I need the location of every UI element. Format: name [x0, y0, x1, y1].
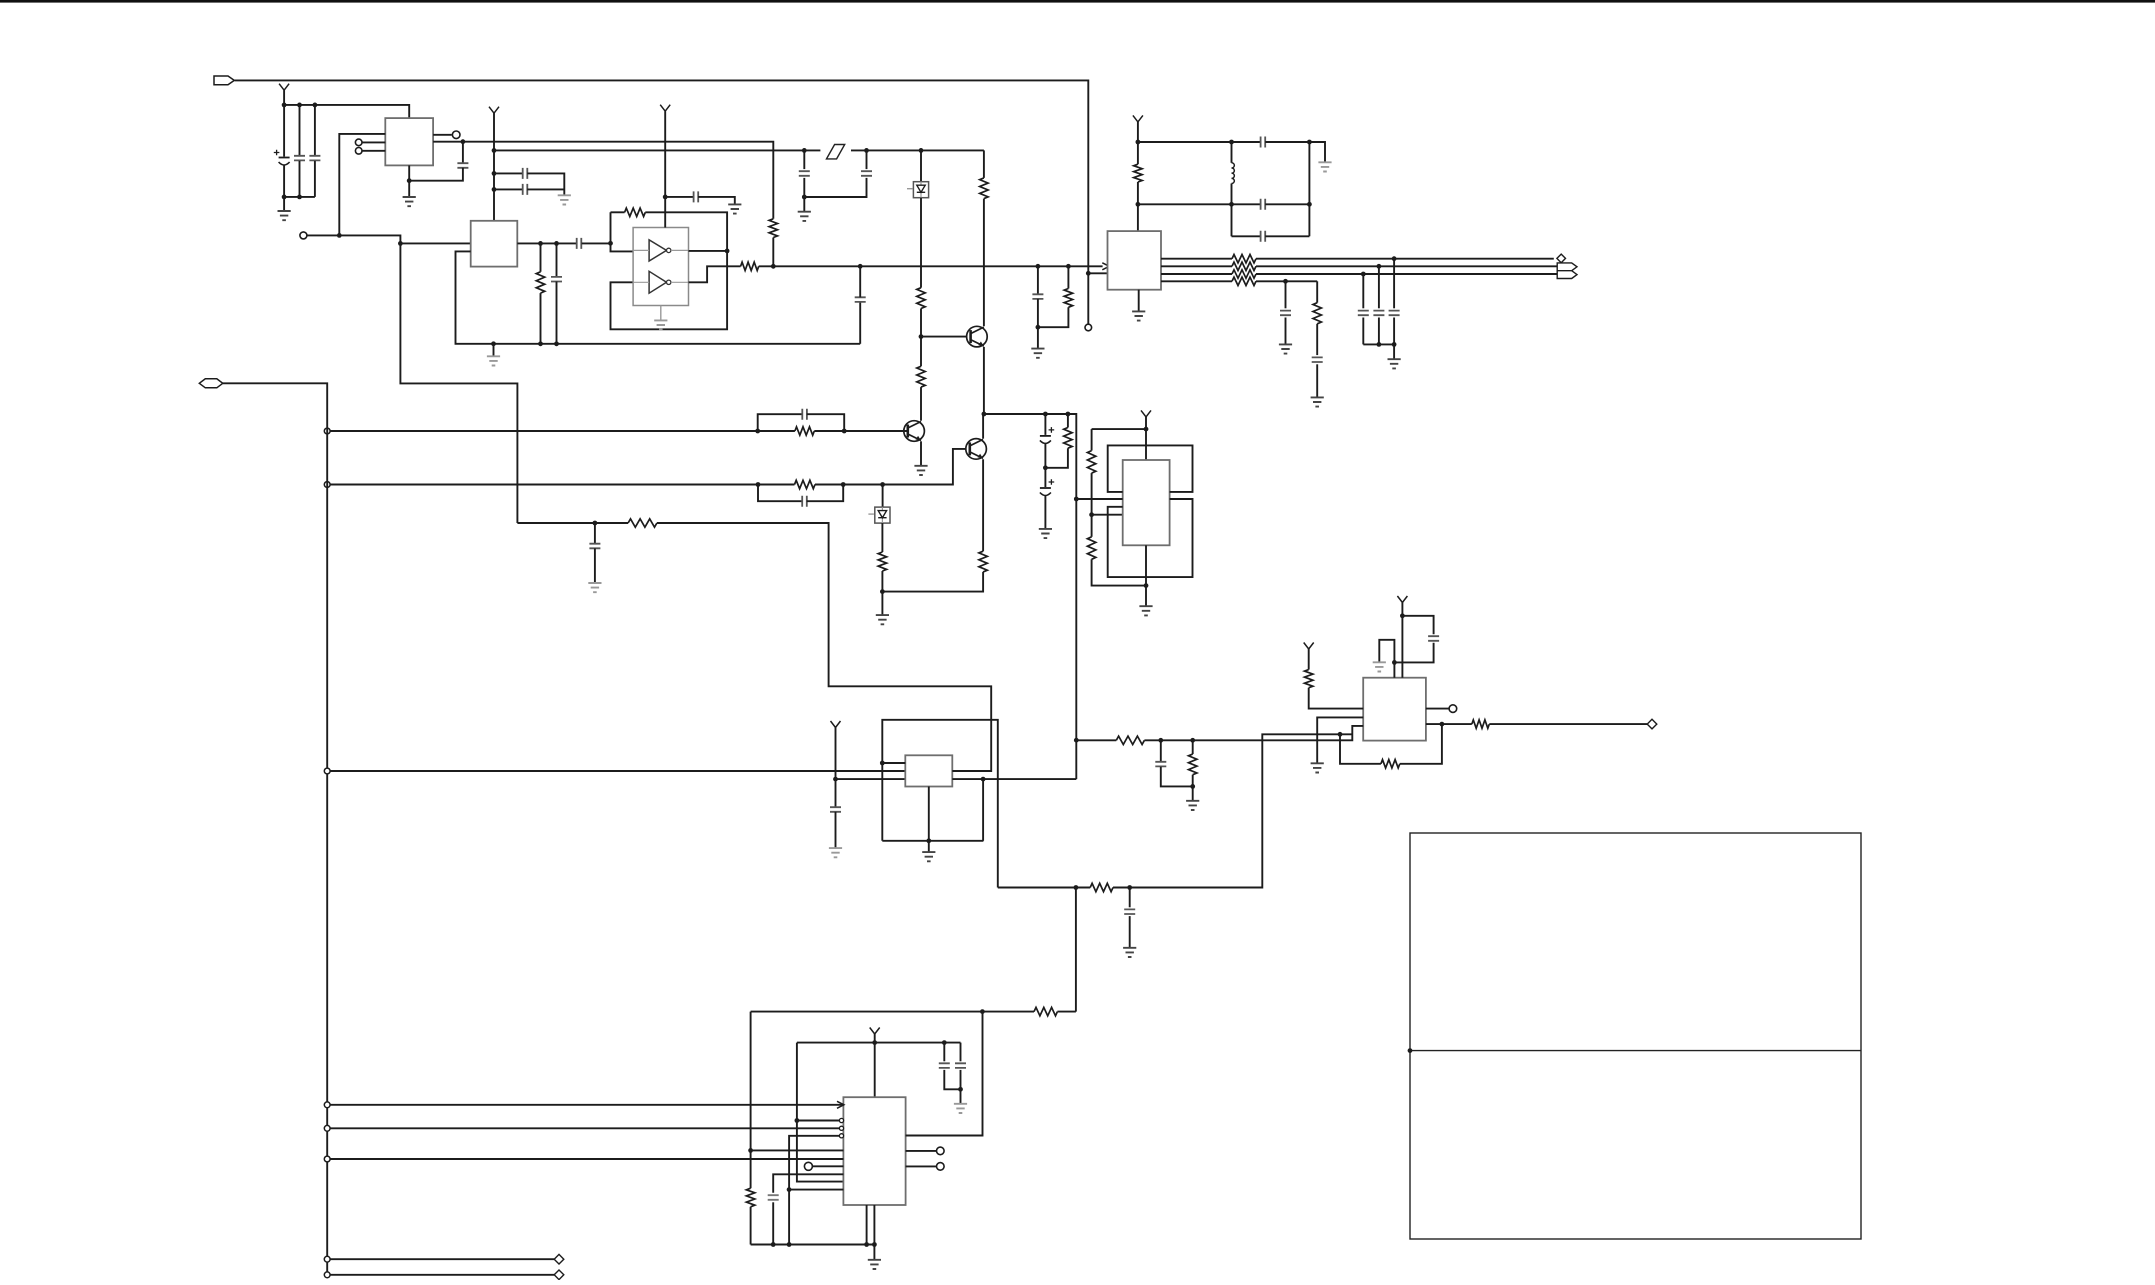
- wire R17 to C22: [1316, 324, 1318, 355]
- wire IC6 gnd pin a: [866, 1205, 868, 1245]
- capacitor C13: [861, 171, 872, 176]
- junction on box edge: [1408, 1048, 1413, 1053]
- junction: [1229, 202, 1234, 207]
- wire R13 body lead: [1067, 414, 1069, 428]
- IC IC5: [905, 755, 952, 786]
- top border bar: [0, 0, 2155, 3]
- wire Y1 stem: [283, 90, 285, 105]
- transistor Q4: [966, 439, 987, 460]
- open terminal TP5: [937, 1147, 945, 1155]
- junction: [880, 482, 885, 487]
- junction: [926, 838, 931, 843]
- wire common row: [1363, 343, 1394, 345]
- junction: [1043, 465, 1048, 470]
- ground: [403, 197, 416, 206]
- junction: [282, 195, 287, 200]
- wire Y7 stem: [874, 1034, 876, 1097]
- capacitor C22: [1312, 357, 1323, 362]
- wire C30 lower: [1161, 767, 1193, 787]
- wire tap7 run: [331, 1258, 555, 1260]
- wire under loop right: [1400, 724, 1442, 764]
- junction: [1229, 140, 1234, 145]
- wire C23 lower: [1037, 299, 1039, 327]
- inverter U1A: [649, 240, 666, 261]
- wire run right: [1113, 734, 1352, 887]
- resistor R11: [979, 551, 987, 572]
- wire bus cap riser: [859, 302, 861, 344]
- wire C27 lead: [1129, 888, 1131, 908]
- wire pinE drop: [982, 779, 984, 841]
- wire C21 lower: [1285, 318, 1287, 344]
- capacitor C6: [523, 184, 528, 195]
- IC IC6: [843, 1097, 905, 1205]
- junction: [1377, 342, 1382, 347]
- wire row1 right: [1265, 141, 1309, 143]
- wire U1A in: [633, 249, 649, 251]
- wire C24 lower: [835, 812, 837, 848]
- wire pin row: [1092, 514, 1123, 516]
- junction: [1136, 140, 1141, 145]
- junction Y3 cap: [663, 195, 668, 200]
- wire IC2 out: [433, 141, 463, 143]
- wire IC2 bottom pin: [408, 165, 410, 196]
- junction IC4 in: [1074, 497, 1079, 502]
- wire L1 upper: [1231, 142, 1233, 163]
- annotation box divider: [1410, 1050, 1861, 1052]
- diamond terminal D-B1: [554, 1254, 564, 1264]
- wire p5: [751, 1149, 844, 1151]
- diamond terminal D-OUT4: [1647, 719, 1657, 729]
- power symbol Y4: [1141, 410, 1151, 417]
- wire C26 lead: [960, 1043, 962, 1062]
- junction: [313, 103, 318, 108]
- wire R11 to node: [882, 572, 983, 592]
- wire IC6 r1: [906, 1012, 983, 1136]
- wire Q4 emitter: [982, 459, 984, 551]
- junction: [872, 1242, 877, 1247]
- IC6 pin bubble p3: [839, 1126, 843, 1130]
- wire tap2 run: [331, 484, 795, 486]
- wire row3: [1232, 235, 1261, 237]
- junction: [864, 1242, 869, 1247]
- capacitor C27: [1124, 909, 1135, 914]
- junction: [1307, 140, 1312, 145]
- wire C1 lead: [283, 105, 285, 157]
- connector tag CN2: [199, 379, 223, 388]
- capacitor C14: [802, 409, 807, 420]
- wire R16 lower: [1137, 182, 1139, 231]
- junction IC6 p2 node: [795, 1118, 800, 1123]
- wire IC3 output: [517, 242, 576, 244]
- capacitor C8: [551, 277, 562, 282]
- wire out2 run: [1489, 723, 1647, 725]
- electrolytic capacitor C1: [279, 157, 290, 159]
- wire C15 loop right: [807, 485, 844, 502]
- ground: [876, 615, 889, 624]
- resistor R24: [1472, 720, 1490, 728]
- capacitor C20: [1261, 231, 1266, 242]
- ground: [728, 204, 741, 213]
- ground: [1388, 359, 1401, 368]
- junction: [755, 429, 760, 434]
- wire IC7 out1: [1426, 708, 1449, 710]
- ground: [1139, 606, 1152, 615]
- resistor R9: [795, 427, 814, 435]
- junction: [958, 1087, 963, 1092]
- wire cap pair top right: [527, 173, 564, 194]
- resistor R12: [878, 552, 886, 571]
- ground: [829, 848, 842, 857]
- resistor R4: [625, 208, 646, 216]
- wire out2 run: [1256, 265, 1557, 267]
- wire IC3 left loop pin: [456, 251, 861, 343]
- capacitor C28: [768, 1195, 779, 1200]
- wire D1 top lead: [920, 150, 922, 181]
- wire power rail: [797, 1042, 961, 1044]
- resistor R14: [1087, 451, 1095, 474]
- wire C3 lead lower: [314, 161, 316, 197]
- wire C16 top lead: [1044, 414, 1046, 435]
- transistor Q1: [904, 421, 925, 442]
- wire Q1 emitter: [920, 441, 922, 465]
- wire C17 top lead: [1044, 468, 1046, 487]
- wire C28 lower: [772, 1202, 774, 1244]
- wire switched line a: [494, 149, 820, 151]
- wire IC6 gnd pin b: [873, 1205, 875, 1245]
- wire C22 lower: [1316, 364, 1318, 397]
- resistor R18: [1064, 289, 1072, 308]
- wire C2 lead: [299, 105, 301, 155]
- junction inverter input: [608, 241, 613, 246]
- junction: [1400, 613, 1405, 618]
- wire C25 lower: [944, 1070, 960, 1089]
- resistor R23: [1381, 760, 1400, 768]
- ground: [1132, 311, 1145, 320]
- junction: [771, 1242, 776, 1247]
- junction top-bus / IC1 pin: [1086, 271, 1091, 276]
- junction: [802, 148, 807, 153]
- junction: [1392, 342, 1397, 347]
- open tap T3: [324, 768, 330, 774]
- capacitor C25: [939, 1063, 950, 1068]
- wire R27 upper: [1192, 740, 1194, 754]
- wire row2: [1138, 203, 1261, 205]
- junction: [880, 589, 885, 594]
- wire cap lead: [1378, 266, 1380, 308]
- wire R15 upper: [1091, 515, 1093, 537]
- wire to gnd: [803, 197, 805, 211]
- wire IC5 pinC: [836, 778, 906, 780]
- wire to IC1 pin 2: [1088, 272, 1107, 274]
- wire to gnd: [928, 841, 930, 852]
- junction: [1066, 264, 1071, 269]
- ground: [1318, 162, 1331, 171]
- wire R8 upper: [920, 337, 922, 367]
- wire C30 lead: [1160, 740, 1162, 761]
- diamond terminal D-OUT1: [1557, 254, 1566, 263]
- junction: [841, 482, 846, 487]
- junction cap tap2: [492, 187, 497, 192]
- junction: [1074, 885, 1079, 890]
- resistor R26: [1034, 1007, 1057, 1015]
- junction line B: [1074, 738, 1079, 743]
- wire Q2 emitter: [983, 347, 985, 414]
- wire Y4 row: [1092, 428, 1146, 430]
- open tap T4: [324, 1102, 330, 1108]
- wire IC2 out long: [463, 142, 773, 219]
- capacitor C7: [577, 238, 582, 249]
- wire cap lower: [1362, 318, 1364, 345]
- wire R7 to Q2 collector: [983, 199, 985, 327]
- resistor R23: [1232, 270, 1256, 278]
- wire C7 to inverter loop: [582, 242, 611, 244]
- open tap T2: [324, 482, 330, 488]
- wire D2 top lead: [882, 485, 884, 508]
- wire gnd stub: [493, 344, 495, 356]
- wire C27 lower: [1129, 916, 1131, 947]
- junction: [1144, 427, 1149, 432]
- wire R8 to Q1 collector: [920, 387, 922, 421]
- resistor R20: [746, 1188, 754, 1207]
- open terminal TP7: [1449, 705, 1457, 713]
- open terminal TP6: [937, 1163, 945, 1171]
- wire tap6 run: [331, 1158, 844, 1160]
- junction Q2 emitter node: [982, 412, 987, 417]
- annotation box: [1410, 833, 1861, 1239]
- open pin circle IC2-a: [355, 139, 362, 146]
- resistor R7: [980, 178, 988, 199]
- wire osc out run: [998, 887, 1090, 889]
- wire Q2 base: [921, 336, 971, 338]
- wire C14 loop right: [807, 414, 844, 431]
- wire R22 to pin1: [1309, 688, 1364, 709]
- capacitor C15: [802, 496, 807, 507]
- electrolytic capacitor C17: [1040, 487, 1051, 489]
- ground: [1311, 763, 1324, 772]
- diode D1: [913, 182, 928, 198]
- junction IC2 out: [461, 139, 466, 144]
- wire R15 to node: [1092, 559, 1146, 585]
- capacitor C10: [589, 544, 600, 549]
- wire C10 lead: [594, 523, 596, 544]
- IC IC7: [1363, 678, 1426, 741]
- wire tap5 run: [331, 1127, 840, 1129]
- wire R14 upper: [1091, 429, 1093, 451]
- IC1 input arrow: [1102, 263, 1109, 270]
- wire tap8 run: [331, 1274, 555, 1276]
- junction: [538, 341, 543, 346]
- wire C29 loop: [1402, 616, 1433, 634]
- capacitor C5: [523, 168, 528, 179]
- wire R3 to corner: [657, 523, 991, 771]
- IC IC2: [385, 118, 433, 165]
- power symbol Y9: [1304, 643, 1314, 650]
- wire row3 right: [1265, 235, 1309, 237]
- wire U1B out to bus: [689, 266, 741, 282]
- wire L1 lower: [1231, 184, 1233, 237]
- wire IC7 out2: [1426, 723, 1472, 725]
- junction IC5 pinA: [880, 761, 885, 766]
- junction: [1144, 583, 1149, 588]
- wire C13 upper: [866, 150, 868, 169]
- wire Q2 collector riser: [983, 150, 985, 178]
- wire lineB left: [1076, 739, 1116, 741]
- ground: [1031, 349, 1044, 358]
- resistor R5: [741, 262, 759, 270]
- wire cap lead: [1393, 259, 1395, 309]
- wire C11 to gnd: [698, 197, 735, 204]
- wire IC1 out2 stub: [1161, 265, 1232, 267]
- open tap T5: [324, 1125, 330, 1131]
- wire C15 loop: [758, 485, 802, 502]
- wire emitter node run: [984, 414, 1076, 779]
- wire to gnd: [960, 1089, 962, 1103]
- wire gnd stem: [873, 1245, 875, 1260]
- wire main bus: [759, 265, 1103, 267]
- wire cap pair bottom right: [527, 188, 564, 190]
- wire loop left vertical: [750, 1012, 752, 1189]
- open tap T8: [324, 1272, 330, 1278]
- resistor R27: [1189, 754, 1197, 775]
- junction: [872, 1040, 877, 1045]
- resistor R25: [1116, 736, 1144, 744]
- wire R10 right: [815, 484, 883, 486]
- wire IC5 pinD: [952, 770, 991, 772]
- wire IC2 pin circle a: [362, 141, 385, 143]
- wire IC7 top pin: [1379, 640, 1394, 678]
- wire IC5 pinE: [952, 778, 1076, 780]
- junction: [942, 1040, 947, 1045]
- wire Y3 stem: [664, 111, 666, 227]
- wire Y8 stem: [1401, 603, 1403, 678]
- resistor R17: [1313, 303, 1321, 324]
- capacitor C3: [309, 156, 320, 161]
- wire R18 upper: [1067, 266, 1069, 288]
- open pin circle IC2-b: [355, 148, 362, 155]
- ground: [278, 211, 291, 220]
- wire IC5 gnd stem: [928, 787, 930, 841]
- junction: [1283, 279, 1288, 284]
- wire to gnd: [1037, 327, 1039, 348]
- resistor R6: [917, 288, 925, 309]
- capacitor C9: [855, 297, 866, 302]
- wire bus cap upper: [859, 266, 861, 297]
- wire out4 run: [1256, 280, 1317, 282]
- wire p8: [773, 1174, 843, 1192]
- wire R1 to bus: [772, 238, 774, 267]
- junction: [1338, 732, 1343, 737]
- wire R20 lower: [750, 1207, 752, 1245]
- wire p4 link: [789, 1136, 839, 1245]
- ground: [1373, 662, 1386, 671]
- wire C8 lower: [556, 282, 558, 344]
- capacitor C12: [799, 171, 810, 176]
- junction: [1190, 738, 1195, 743]
- wire C21 lead: [1285, 281, 1287, 308]
- wire R16 upper: [1137, 142, 1139, 164]
- resistor R1: [769, 219, 777, 238]
- ground: [487, 356, 500, 365]
- ground: [798, 212, 811, 221]
- resistor R21: [1232, 255, 1256, 263]
- wire C29 lower: [1394, 643, 1433, 663]
- junction: [1127, 885, 1132, 890]
- junction: [981, 777, 986, 782]
- wire tap1 run: [331, 430, 795, 432]
- wire to Q4 base: [883, 449, 970, 485]
- wire TP3 to IC3: [307, 235, 471, 243]
- resistor R2: [536, 272, 544, 293]
- wire under loop: [1340, 734, 1381, 764]
- wire p7: [812, 1165, 843, 1167]
- wire cap C11 lead: [665, 196, 694, 198]
- wire bottom row caps: [284, 196, 315, 198]
- wire Y6 stem: [835, 728, 837, 807]
- IC U1 dual inverter: [633, 228, 688, 306]
- inverter U1B: [649, 271, 666, 293]
- wire R14 to pin: [1091, 473, 1093, 515]
- wire C2 lead lower: [299, 161, 301, 197]
- junction: [756, 482, 761, 487]
- junction: [1392, 256, 1397, 261]
- junction: [1136, 202, 1141, 207]
- wire to ground: [283, 197, 285, 211]
- junction: [1307, 202, 1312, 207]
- capacitor: [1373, 311, 1384, 316]
- wire cap lead: [1362, 274, 1364, 308]
- resistor R22: [1305, 670, 1313, 688]
- wire Q4 collector: [982, 414, 984, 439]
- power symbol Y1: [279, 84, 289, 91]
- junction: [337, 233, 342, 238]
- junction: [1377, 264, 1382, 269]
- ground: [1279, 344, 1292, 353]
- junction: [1036, 264, 1041, 269]
- resistor R16: [1134, 164, 1142, 182]
- wire tap4 run: [331, 1104, 844, 1106]
- wire IC5 loopB: [882, 720, 998, 888]
- wire C23 lead: [1037, 266, 1039, 294]
- capacitor C4: [457, 163, 468, 168]
- diode D2: [875, 507, 890, 523]
- capacitor C26: [955, 1063, 966, 1068]
- junction: [1392, 660, 1397, 665]
- capacitor C19: [1261, 199, 1266, 210]
- junction: [398, 241, 403, 246]
- junction: [1361, 272, 1366, 277]
- wire C25 lead: [943, 1043, 945, 1062]
- wire C4 bottom lead: [409, 168, 463, 181]
- junction: [538, 241, 543, 246]
- wire U1B in: [633, 281, 649, 283]
- wire IC7 pin2 gnd: [1317, 717, 1363, 762]
- ground: [588, 583, 601, 592]
- open terminal TP3: [300, 232, 307, 239]
- resistor R8: [917, 366, 925, 387]
- ground: [558, 195, 571, 204]
- capacitor C30: [1155, 762, 1166, 767]
- wire fb to cap node: [517, 522, 628, 524]
- wire R6 to Q2 base node: [920, 309, 922, 337]
- resistor R15: [1087, 537, 1095, 560]
- junction: [554, 241, 559, 246]
- junction: [919, 148, 924, 153]
- wire R12 to gnd: [881, 571, 883, 615]
- wire R2 branch: [540, 243, 542, 271]
- ground: [868, 1260, 881, 1269]
- junction cap tap1: [492, 171, 497, 176]
- wire C12 lower: [804, 178, 866, 197]
